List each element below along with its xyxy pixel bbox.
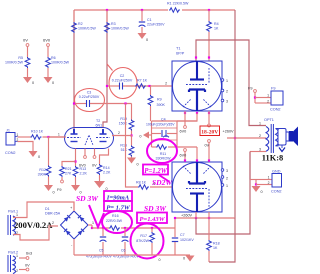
svg-text:C1: C1 — [147, 18, 152, 22]
capacitor C2 — [107, 85, 119, 87]
transformer Part2 winding — [7, 255, 9, 272]
tube T1 plate — [196, 61, 198, 79]
wire long vertical right bus — [234, 10, 236, 218]
svg-text:0.22uF/250V: 0.22uF/250V — [112, 78, 133, 82]
svg-text:1: 1 — [16, 213, 18, 217]
node F9 top — [254, 90, 257, 93]
junction dot cathode — [74, 160, 76, 162]
svg-text:C2: C2 — [120, 74, 125, 78]
wire tube2 plate down — [195, 212, 197, 218]
svg-text:R5: R5 — [18, 56, 23, 60]
svg-text:T1: T1 — [176, 47, 180, 51]
svg-text:3: 3 — [259, 148, 261, 152]
tube T1 pins right — [221, 79, 224, 82]
resistor R14 — [97, 164, 102, 175]
svg-text:CON2: CON2 — [5, 151, 16, 155]
transformer Part1 winding — [7, 215, 9, 235]
svg-text:0: 0 — [159, 258, 161, 262]
wire J1 pin2 to ground — [18, 142, 34, 152]
svg-text:C5: C5 — [99, 249, 103, 253]
transformer OPT1 core — [270, 124, 272, 153]
ground arrow left of C4 — [149, 134, 152, 136]
svg-text:F9: F9 — [57, 188, 61, 192]
svg-text:GND: GND — [272, 170, 281, 174]
svg-text:2: 2 — [267, 100, 269, 104]
ground at GND connector — [252, 186, 261, 192]
capacitor C1 — [141, 10, 143, 21]
svg-text:D1: D1 — [45, 207, 50, 211]
wire triode pin2 to R15 — [112, 135, 132, 137]
triode right cathode — [100, 141, 107, 143]
ground below R14 — [94, 181, 105, 188]
tube T2b pins right — [221, 169, 224, 172]
wire grid1 feed — [49, 136, 66, 138]
ground below R6 — [44, 77, 53, 83]
svg-text:C7: C7 — [180, 233, 185, 237]
svg-text:R11: R11 — [160, 152, 166, 156]
annotation box I=90mA — [104, 191, 132, 201]
annotation oval around R17 — [131, 224, 164, 259]
ground below R13 — [71, 185, 80, 191]
tube T2b screen grid — [186, 188, 208, 190]
wire bridge out to R16 — [88, 224, 92, 226]
tube T2b plate — [190, 192, 204, 194]
speaker ground — [281, 145, 283, 148]
annotation circle around C3 — [75, 89, 105, 112]
svg-text:1K: 1K — [214, 27, 219, 31]
resistor R9 — [150, 86, 152, 95]
wire bus down to bottom loop — [234, 218, 236, 234]
heater node 6V0 triode — [84, 149, 86, 156]
bridge diode bottom-left — [64, 229, 71, 236]
wire tube1 cathode down — [152, 113, 198, 121]
wire OPT pin3 — [250, 151, 266, 153]
transformer OPT1 primary — [266, 127, 269, 152]
svg-text:0: 0 — [139, 135, 141, 139]
svg-text:1: 1 — [92, 221, 94, 225]
svg-text:+260V: +260V — [181, 214, 193, 218]
svg-text:51K: 51K — [121, 148, 128, 152]
resistor R11 — [156, 145, 167, 149]
wire B+ node to R16 — [92, 227, 109, 229]
svg-text:100R/0.5W: 100R/0.5W — [5, 61, 24, 65]
svg-text:3: 3 — [226, 169, 228, 173]
svg-text:SD 3W: SD 3W — [76, 194, 99, 203]
wire R18 bottom loop — [209, 234, 235, 262]
wire C4 left vertical — [151, 121, 153, 147]
svg-text:22uF/350V: 22uF/350V — [147, 23, 165, 27]
svg-text:P=1.2W: P=1.2W — [144, 168, 168, 175]
junction dots below tube1 — [184, 112, 186, 114]
svg-text:100uF(220uF)/35V: 100uF(220uF)/35V — [146, 123, 175, 127]
wire R19 to R8 feed — [126, 104, 139, 188]
annotation circle around C2 — [109, 68, 137, 99]
tube T2b cathode lead — [196, 162, 198, 183]
svg-text:1: 1 — [16, 254, 18, 258]
tube T1 box — [172, 61, 222, 111]
ground below R15 — [127, 158, 136, 164]
bridge diode top-left — [64, 215, 71, 222]
ground below R5 — [23, 77, 32, 83]
wire speaker return — [249, 152, 251, 180]
svg-text:1: 1 — [268, 176, 270, 180]
svg-text:2.2K: 2.2K — [80, 172, 88, 176]
svg-text:150K: 150K — [119, 122, 128, 126]
node 6v3 — [19, 257, 26, 259]
svg-text:2.2K: 2.2K — [103, 171, 111, 175]
svg-text:0: 0 — [52, 81, 54, 85]
svg-text:R4: R4 — [214, 22, 219, 26]
annotation oval around R11 — [147, 139, 177, 163]
svg-text:102/1KV: 102/1KV — [180, 238, 194, 242]
svg-text:0: 0 — [183, 257, 185, 261]
junction dots filter rail — [102, 227, 104, 229]
triode left plate — [73, 129, 75, 134]
svg-text:CON2: CON2 — [270, 108, 281, 112]
triode left grid — [67, 137, 81, 139]
wire OPT pin2 from bus — [227, 137, 266, 139]
junction dot R10 right — [47, 136, 49, 138]
tube T1 heater pin nodes — [184, 111, 186, 126]
svg-text:+260V: +260V — [223, 130, 235, 134]
node 0V Part2 — [19, 269, 26, 271]
svg-text:0: 0 — [38, 155, 40, 159]
tube T2b cathode — [189, 181, 205, 184]
annotation box P=1.7W — [104, 201, 132, 211]
svg-text:100K/0.5W: 100K/0.5W — [111, 27, 129, 31]
svg-text:6V0: 6V0 — [79, 164, 86, 168]
wire Part1 pin2 to bridge — [13, 226, 58, 240]
tube T2b box — [172, 162, 222, 212]
triode heater — [85, 135, 93, 145]
wire to R21 — [62, 162, 76, 167]
wire tube1 plate to OPT pin1 — [196, 40, 266, 126]
svg-text:0: 0 — [261, 190, 263, 194]
svg-text:OPT1: OPT1 — [264, 118, 274, 122]
svg-text:2: 2 — [268, 181, 270, 185]
triode T2 6N1 envelope — [65, 128, 114, 149]
svg-text:DBR-25A: DBR-25A — [45, 212, 61, 216]
resistor R10 — [31, 135, 42, 139]
svg-text:0V: 0V — [205, 144, 210, 148]
bridge rectifier D1 frame — [61, 211, 89, 239]
svg-text:6V0: 6V0 — [180, 154, 187, 158]
resistor R5 — [27, 46, 29, 57]
svg-text:P=1.43W: P=1.43W — [139, 216, 165, 223]
resistor R19 — [131, 104, 133, 120]
svg-text:T2: T2 — [96, 119, 100, 123]
capacitor C3 — [74, 103, 86, 105]
svg-text:6V0: 6V0 — [180, 130, 187, 134]
resistor R16 — [109, 226, 120, 230]
wire bridge plus up — [73, 202, 75, 211]
wire bridge minus down — [73, 239, 75, 255]
wire left cathode down — [75, 149, 77, 167]
junction dot R9 top — [148, 85, 150, 87]
resistor R6 — [47, 46, 49, 57]
svg-text:18-20V: 18-20V — [201, 130, 218, 136]
resistor R17 — [151, 228, 153, 232]
svg-text:0.22uF/250V: 0.22uF/250V — [79, 95, 100, 99]
svg-text:0V: 0V — [25, 264, 30, 268]
svg-text:J1: J1 — [6, 129, 10, 133]
resistor R7 — [126, 85, 135, 87]
node 6V0 — [47, 44, 50, 47]
wire Part1 pin1 to bridge — [13, 202, 74, 218]
junction dots above tube1 — [195, 56, 197, 58]
wire J1 pin1 to R10 — [18, 136, 31, 138]
triode right grid — [96, 137, 110, 139]
svg-text:390K: 390K — [38, 173, 47, 177]
svg-text:100K/0.5W: 100K/0.5W — [78, 27, 96, 31]
svg-text:390K: 390K — [157, 103, 166, 107]
svg-text:R6: R6 — [51, 56, 56, 60]
svg-text:R8 1K: R8 1K — [136, 181, 147, 185]
tube T2b heater nodes — [184, 149, 187, 152]
junction dot +260V x235 — [234, 137, 236, 139]
heater node 0V triode — [94, 149, 96, 156]
svg-text:1: 1 — [17, 133, 19, 137]
junction dot R15 top — [130, 134, 132, 136]
svg-text:F9: F9 — [271, 87, 275, 91]
svg-text:1: 1 — [226, 79, 228, 83]
resistor R18 — [207, 240, 212, 251]
wire C4 right vertical — [176, 121, 178, 147]
svg-text:87K/2W: 87K/2W — [136, 239, 149, 243]
wire right cathode down — [100, 149, 109, 165]
svg-text:2: 2 — [52, 221, 54, 225]
tube T1 screen grid — [186, 84, 208, 86]
svg-text:R7 1K: R7 1K — [137, 79, 148, 83]
svg-text:100R/0.5W: 100R/0.5W — [51, 61, 70, 65]
wire top B+ rail — [74, 9, 235, 11]
svg-text:11K:8: 11K:8 — [262, 154, 283, 163]
svg-text:330R/2W: 330R/2W — [156, 157, 172, 161]
svg-text:C6: C6 — [121, 249, 125, 253]
junction dot C2 left — [106, 85, 108, 87]
svg-text:0: 0 — [32, 81, 34, 85]
svg-text:P= 1.7W: P= 1.7W — [106, 205, 131, 212]
svg-text:R21: R21 — [65, 167, 72, 171]
wire R16 out up to +260V — [174, 218, 176, 228]
wire F9 to CON2 — [254, 92, 256, 103]
tube T2b heater — [183, 166, 211, 174]
capacitor C5 — [102, 228, 104, 236]
tube T1 heater — [183, 99, 211, 107]
tube T2b top pin dots — [184, 159, 186, 161]
annotation box P=1.43W — [137, 213, 167, 224]
svg-text:0V: 0V — [92, 164, 97, 168]
svg-text:0: 0 — [137, 163, 139, 167]
svg-text:2: 2 — [16, 269, 18, 273]
svg-text:R10 1K: R10 1K — [31, 130, 44, 134]
svg-text:1: 1 — [58, 133, 60, 137]
junction dots top rail — [106, 9, 108, 11]
ground bottom — [185, 254, 190, 256]
ground below C1 — [138, 33, 147, 39]
svg-text:R12: R12 — [39, 168, 46, 172]
wire left vertical R2 branch — [73, 10, 75, 129]
resistor R4 — [208, 10, 210, 21]
svg-text:SD2W: SD2W — [152, 178, 173, 187]
svg-text:2: 2 — [118, 131, 120, 135]
svg-text:2: 2 — [165, 82, 167, 86]
svg-text:6P/P: 6P/P — [176, 52, 185, 56]
tube T1 cathode lead — [196, 90, 198, 111]
annotation oval around R16 — [102, 211, 132, 233]
svg-text:2: 2 — [226, 177, 228, 181]
tube T2b circle — [173, 163, 222, 212]
annotation stroke to R16 — [89, 205, 104, 227]
svg-text:6N1: 6N1 — [96, 124, 103, 128]
svg-text:R9: R9 — [157, 98, 162, 102]
svg-text:C4: C4 — [161, 118, 166, 122]
annotation red box 18-20V — [200, 126, 220, 136]
bridge diode bottom-right — [78, 229, 85, 236]
svg-text:R1 22K/0.5W: R1 22K/0.5W — [167, 2, 189, 6]
wire to GND connector — [250, 179, 256, 181]
svg-text:1K: 1K — [213, 246, 218, 250]
triode left cathode — [71, 141, 78, 143]
wire +260V rail — [175, 217, 235, 219]
connector CON2 right top — [271, 91, 283, 105]
svg-text:1: 1 — [259, 122, 261, 126]
svg-text:R17: R17 — [140, 234, 147, 238]
resistor R12 — [48, 137, 50, 166]
svg-text:2: 2 — [226, 90, 228, 94]
svg-text:R18: R18 — [213, 242, 220, 246]
junction dot C3 left — [73, 102, 75, 104]
svg-text:CON2: CON2 — [271, 190, 282, 194]
svg-text:3: 3 — [226, 100, 228, 104]
resistor R1 — [168, 7, 182, 13]
resistor R13 — [73, 166, 78, 177]
ground rail bottom — [74, 254, 185, 256]
svg-text:0V: 0V — [23, 38, 28, 43]
junction dot R19 top — [124, 102, 126, 104]
capacitor C7 — [174, 228, 176, 237]
annotation box P=1.2W — [143, 165, 168, 175]
svg-text:6V0: 6V0 — [43, 38, 51, 43]
svg-text:200V/0.2A: 200V/0.2A — [14, 220, 53, 230]
wire vertical R3/C2 branch — [106, 10, 108, 86]
svg-text:6v3: 6v3 — [26, 252, 32, 256]
wire bottom loop to OPT pin3 — [196, 152, 250, 235]
tube T1 cathode — [189, 90, 205, 93]
svg-text:1: 1 — [226, 184, 228, 188]
resistor R21 — [60, 166, 65, 177]
tube T1 circle — [173, 62, 222, 111]
triode right plate — [102, 129, 104, 134]
capacitor C6 — [124, 228, 126, 236]
ground below J1 — [29, 151, 38, 157]
svg-text:R14: R14 — [103, 166, 110, 170]
ground below R12 — [44, 185, 53, 191]
svg-text:0: 0 — [53, 191, 55, 195]
svg-text:1: 1 — [267, 94, 269, 98]
svg-text:F9: F9 — [248, 87, 252, 91]
svg-text:R2: R2 — [78, 22, 83, 26]
resistor R15 — [131, 136, 133, 146]
bridge diode top-right — [78, 215, 85, 222]
svg-text:R13: R13 — [80, 167, 87, 171]
node 0V — [26, 44, 29, 47]
svg-text:2: 2 — [259, 134, 261, 138]
resistor R3 — [106, 10, 108, 22]
speaker — [278, 129, 286, 146]
svg-text:0: 0 — [146, 38, 148, 42]
wire C2 node down to triode plate — [103, 86, 107, 128]
node F9 below R21 — [61, 180, 64, 183]
transformer OPT1 secondary — [276, 129, 279, 146]
wire tube2 screen down — [208, 212, 210, 218]
resistor R2 — [73, 10, 75, 22]
svg-text:R3: R3 — [111, 22, 116, 26]
svg-text:R16: R16 — [112, 214, 119, 218]
svg-text:22R/0.5W: 22R/0.5W — [106, 219, 123, 223]
svg-text:27K: 27K — [65, 172, 72, 176]
